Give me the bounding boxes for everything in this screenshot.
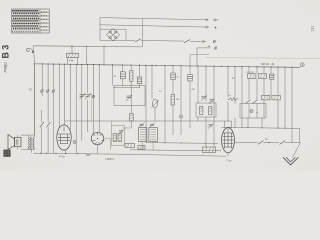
wire V3 pins top [155, 121, 232, 128]
wire drop x155 [154, 108, 156, 121]
contact K5 [180, 115, 183, 118]
wire line y128 [222, 127, 300, 128]
wire rail y150 [130, 150, 221, 151]
capacitor C9 [188, 75, 193, 81]
wire V1 cathode [65, 150, 67, 153]
resistor R15 [113, 134, 116, 142]
table contact dots [12, 11, 39, 32]
wire y128 right drop [299, 128, 301, 142]
trimmer C2 [85, 94, 91, 100]
wire V2 pin1 [92, 65, 94, 134]
trimmer C10 [201, 96, 207, 101]
wire line C seg1 [126, 39, 135, 41]
wire drop x122 [122, 65, 124, 86]
wire V3 output [234, 141, 257, 143]
wire drop x235 [234, 67, 236, 128]
wire drop x173 [172, 66, 174, 135]
wire V2 pin2 [98, 65, 100, 134]
resistor R10 [258, 74, 266, 79]
wire V2 right loop [112, 126, 125, 146]
wire drop x242b [241, 118, 243, 128]
right low loop [240, 104, 266, 119]
capacitor C12 [270, 74, 274, 79]
pickup coil X1 [106, 29, 119, 41]
wire drop x257 [256, 67, 258, 118]
resistor R13 [272, 95, 280, 100]
switch S7 [258, 141, 264, 145]
wire drop x249 [248, 67, 250, 118]
wire V1 anode [64, 64, 66, 125]
trimmer C5 [126, 95, 132, 101]
speaker LS [8, 135, 21, 150]
svg-text:NR 40 - 41: NR 40 - 41 [261, 62, 275, 66]
paper fold artifact [205, 57, 320, 58]
wire rail y143 [146, 142, 218, 145]
resistor R7 [200, 107, 203, 115]
terminal D [214, 47, 217, 50]
terminal B [215, 27, 217, 29]
wire line E [190, 54, 209, 56]
wire drop x262b [261, 118, 263, 128]
wire drop x131 [130, 65, 132, 128]
arrow line B [206, 26, 209, 28]
switch S6 [253, 100, 258, 104]
corner stamp icon [3, 150, 10, 157]
wire riser x197 [196, 48, 198, 66]
wire feed stub x86 [86, 46, 88, 64]
wire line B [100, 25, 209, 27]
arrow line A [206, 19, 209, 21]
capacitor C8 [171, 73, 176, 79]
wire drop x139 [139, 65, 141, 87]
wire R1 left stub [67, 58, 69, 65]
wire drop x87 [87, 65, 89, 132]
svg-text:I 206 V: I 206 V [105, 157, 115, 161]
svg-text:B 3: B 3 [1, 45, 11, 59]
resistor R2 [129, 71, 133, 81]
terminal bus right end [300, 63, 305, 68]
wire feed stub x104 [103, 47, 105, 65]
wire drop x190 [189, 66, 191, 128]
bus junction dots [42, 63, 293, 68]
wire line D [197, 47, 211, 49]
wire drop c0 [40, 110, 42, 153]
trimmer C13 [139, 123, 144, 128]
resistor R9 [248, 74, 256, 79]
wire to ground [285, 143, 301, 158]
wire V1 screen [69, 64, 71, 129]
resistor R1 [67, 53, 79, 57]
resistor R8 [209, 107, 212, 115]
trimmer C11 [209, 99, 215, 104]
svg-text:131: 131 [311, 26, 315, 32]
switch S5 [246, 100, 251, 104]
svg-text:666: 666 [86, 154, 91, 157]
resistor R14 [203, 147, 216, 153]
wire mid bottom links [112, 121, 132, 128]
coil switch table frame [12, 9, 50, 33]
wire drop x76 [75, 64, 77, 153]
svg-text:F 2a: F 2a [59, 155, 65, 159]
wire can stubs [143, 142, 153, 151]
feed junction dots [71, 46, 104, 47]
contact K2 [46, 89, 49, 93]
wire line A [100, 18, 209, 20]
trimmer C14 [150, 123, 155, 128]
svg-text:D: D [266, 137, 268, 141]
wire drop x91 [91, 94, 93, 122]
wire transformer top [18, 64, 35, 137]
variable capacitor C6 [152, 99, 159, 108]
wire feed stub x72 [71, 46, 73, 53]
trimmer C1 [79, 94, 85, 100]
wire drop x112 [112, 65, 114, 86]
resistor R3 [130, 114, 134, 122]
wire pickup loop [100, 18, 126, 41]
wire drop x278 [277, 67, 279, 128]
wire drop x242 [241, 67, 243, 118]
svg-text:4 W: 4 W [69, 59, 74, 63]
wire antenna feed [34, 46, 35, 135]
contact K7 [92, 95, 95, 99]
wire drop x152 [151, 65, 153, 99]
contact K1 [41, 89, 44, 93]
wire drop c1 [41, 64, 43, 96]
svg-text:17k 22k: 17k 22k [246, 72, 255, 74]
wire drop x181 [180, 66, 182, 135]
resistor R11 [228, 98, 239, 101]
resistor R16 [118, 134, 121, 142]
svg-text:Philips: Philips [4, 62, 8, 73]
terminal C [213, 40, 216, 43]
wire V3 cathode [227, 153, 229, 157]
dots y143 [164, 142, 205, 144]
IF transformer T2 [139, 128, 147, 142]
resistor R6 [171, 95, 175, 106]
contact K6 [250, 109, 253, 112]
right mid loop [196, 103, 216, 117]
wire drop x228 [227, 66, 229, 121]
wire riser x190 [189, 55, 191, 66]
wire transformer bottom [18, 147, 35, 153]
wire riser x142 [142, 19, 144, 47]
antenna symbol [27, 48, 34, 53]
contact K4 [73, 141, 76, 144]
wire drop x206 [205, 66, 207, 147]
capacitor C4 [137, 77, 142, 84]
wire drop c3 [53, 64, 55, 153]
wire drop x264 [263, 67, 265, 118]
wire drop x271 [270, 67, 272, 95]
switch S4 [40, 122, 44, 127]
tube V3 [222, 128, 235, 153]
wire drop c2 [47, 64, 49, 153]
wire drop x214 [213, 66, 215, 147]
wire top feed line [34, 46, 143, 47]
wire main bus [34, 64, 300, 68]
terminal A [214, 19, 218, 21]
rail junction dots [40, 153, 78, 155]
wire rail main [34, 153, 227, 156]
wire line C seg3 [190, 40, 206, 42]
wire mid link [113, 87, 140, 89]
switch S3 [46, 122, 50, 127]
wire drop x165 [164, 66, 166, 143]
table range labels [41, 12, 48, 30]
wire drop x81 [81, 64, 83, 140]
wire drop x198 [197, 66, 199, 121]
wire line C seg2 [141, 40, 184, 43]
tube V1 [57, 125, 71, 150]
wire mid loop [114, 86, 145, 106]
wire top link [65, 120, 155, 122]
paper background [0, 0, 320, 171]
resistor R12 [262, 95, 270, 100]
wire after S7 [264, 142, 280, 144]
svg-text:7 vv: 7 vv [226, 159, 232, 163]
switch S2 [184, 40, 190, 43]
switch S1 [135, 39, 141, 42]
wire R1 right stub [76, 58, 78, 65]
transformer T1 [29, 137, 35, 150]
resistor R4 [125, 144, 135, 148]
svg-text:1M: 1M [176, 99, 179, 101]
capacitor C3 [120, 72, 125, 79]
trimmer C15 [208, 124, 214, 129]
junction y142 [268, 142, 269, 143]
switch S8 [280, 141, 286, 145]
junction c0 rail [41, 152, 42, 153]
trimmer C7 [119, 130, 125, 135]
wire V1 grid [58, 64, 60, 128]
wire drop x248b [247, 118, 249, 128]
arrow line C [203, 40, 206, 42]
wire V2 cathode [97, 145, 99, 154]
wire drop x292 [291, 67, 293, 142]
wire v2 bottom link [104, 139, 111, 151]
IF transformer T3 [149, 128, 157, 142]
dots y128 [229, 127, 285, 129]
resistor R5 [138, 146, 145, 150]
wire drop x146 [145, 65, 147, 142]
tube V2 [91, 132, 104, 144]
contact K3 [52, 89, 55, 93]
ground symbol [283, 157, 298, 165]
svg-text:2M: 2M [192, 89, 195, 91]
wire drop x285 [284, 67, 286, 128]
